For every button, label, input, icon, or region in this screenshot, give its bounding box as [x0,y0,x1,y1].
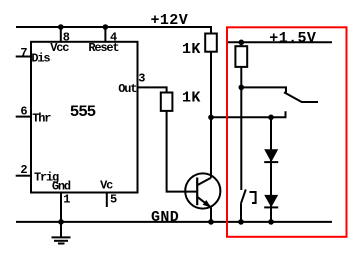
switch SW1 blade [284,92,318,102]
node diode gnd junction [268,219,274,225]
wire +12V rail [16,27,211,34]
node R3 top junction [239,40,245,46]
wire emitter to gnd [210,207,212,222]
red highlight box [227,27,347,237]
diode D1 triangle [264,149,278,162]
wire GND rail [16,221,332,223]
svg-text:3: 3 [138,72,145,86]
resistor R2 1K [161,93,173,111]
diode D2 cathode bar [264,206,278,208]
transistor Q1 collector diagonal [197,178,211,186]
svg-text:Dis: Dis [31,51,50,65]
node pin4 junction [103,24,109,30]
svg-text:555: 555 [70,103,96,121]
wire collector line [210,52,212,178]
resistor R3 [235,46,247,67]
transistor Q1 emitter arrowhead [203,200,212,208]
svg-text:1: 1 [63,193,70,207]
wire pin1 stub [60,193,62,222]
transistor Q1 circle [185,173,220,208]
svg-text:Reset: Reset [88,41,119,55]
svg-text:1K: 1K [182,90,201,107]
wire pin5 stub [106,193,108,208]
svg-text:7: 7 [20,46,27,60]
wire switch SW1 branch [241,87,286,92]
svg-text:5: 5 [110,193,117,207]
wire pin7 stub [16,56,31,58]
node switch branch junction [239,85,245,91]
wire +1.5V rail [228,41,332,43]
wire horizontal bus y117 [211,111,286,117]
svg-text:2: 2 [20,163,27,177]
transistor Q1 emitter diagonal [197,197,211,208]
svg-text:Thr: Thr [32,112,51,126]
node emitter gnd junction [208,219,214,225]
wire pin6 stub [16,116,31,118]
wire diode column [270,117,272,222]
svg-text:6: 6 [20,105,27,119]
svg-text:Gnd: Gnd [52,180,71,194]
ground symbol [52,222,71,244]
wire pin2 stub [16,175,31,177]
svg-text:Vcc: Vcc [50,41,69,55]
node sw2 gnd junction [238,219,244,225]
node gnd pin1 junction [58,219,64,225]
node diode top junction [268,115,274,121]
wire R2 to base [167,111,198,192]
wire R3 top lead [240,42,242,46]
svg-text:1K: 1K [182,41,201,58]
svg-text:+1.5V: +1.5V [269,30,316,47]
resistor R1 1K [205,34,217,52]
wire pin4 stub [104,27,106,42]
transistor Q1 base bar [196,178,198,206]
wire pin3 out [138,87,167,92]
svg-text:GND: GND [151,209,179,226]
op-amp U1 555 box [31,42,138,193]
diode D2 triangle [264,195,278,208]
wire R3 bottom to switch [240,67,242,190]
switch SW2 actuator [250,192,256,203]
node pin8 junction [58,24,64,30]
switch SW2 blade [241,189,246,203]
svg-text:+12V: +12V [151,12,189,29]
diode D1 cathode bar [264,161,278,163]
svg-text:Vc: Vc [100,179,113,193]
svg-text:Out: Out [118,82,137,96]
node collector junction [208,115,214,121]
wire SW2 to gnd [240,204,242,222]
wire pin8 stub [60,27,62,42]
